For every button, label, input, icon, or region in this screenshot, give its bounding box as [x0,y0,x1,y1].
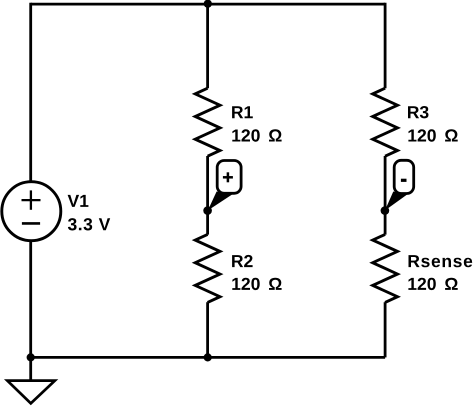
ground triangle symbol [7,381,55,404]
label R1 value 120 ohm [232,129,281,141]
label R3 value 120 ohm [408,129,457,141]
wire bottom horizontal [31,356,385,359]
resistor Rsense zigzag symbol [373,234,398,302]
node top junction [204,0,212,8]
probe plus pointer wedge [208,192,233,211]
resistor R1 [195,88,281,156]
wire middle vertical mid [206,156,209,235]
resistor R3 zigzag symbol [373,88,398,156]
resistor R2 [195,234,281,302]
probe minus sign [401,179,407,182]
label V1 value 3.3 V [68,218,110,230]
resistor R2 zigzag symbol [195,234,220,302]
wire top horizontal [31,3,385,6]
node bottom-middle junction [204,353,212,361]
wire left vertical lower [29,240,32,358]
resistor R3 [373,88,458,156]
resistor R1 zigzag symbol [195,88,220,156]
label R2 value 120 ohm [232,278,281,290]
probe minus flag [381,160,414,215]
V1 minus terminal mark [22,222,40,225]
label Rsense value 120 ohm [408,278,457,290]
label R3 name [408,106,429,118]
resistor Rsense [373,234,473,302]
wire right vertical bottom [384,302,387,357]
V1 plus terminal mark [22,199,41,201]
node plus probe attachment dot [203,206,212,215]
ground [7,357,55,403]
ground stub wire [29,357,32,381]
probe plus sign [223,176,233,179]
wire right vertical top [384,3,387,89]
label R2 name [232,255,253,267]
label Rsense name [409,255,473,267]
wire middle vertical top [206,4,209,88]
label V1 name [68,195,89,207]
voltage source V1 circle [2,182,61,241]
probe minus pointer wedge [385,192,407,211]
voltage source V1 [2,182,61,241]
label R1 name [232,106,253,118]
wire left vertical upper [29,3,32,183]
probe minus rounded flag [394,160,414,193]
probe plus flag [203,161,241,215]
wire right vertical mid [384,156,387,235]
probe plus rounded flag [217,161,241,194]
node bottom-left junction [27,353,35,361]
wire middle vertical bottom [206,302,209,357]
node minus probe attachment dot [381,206,390,215]
